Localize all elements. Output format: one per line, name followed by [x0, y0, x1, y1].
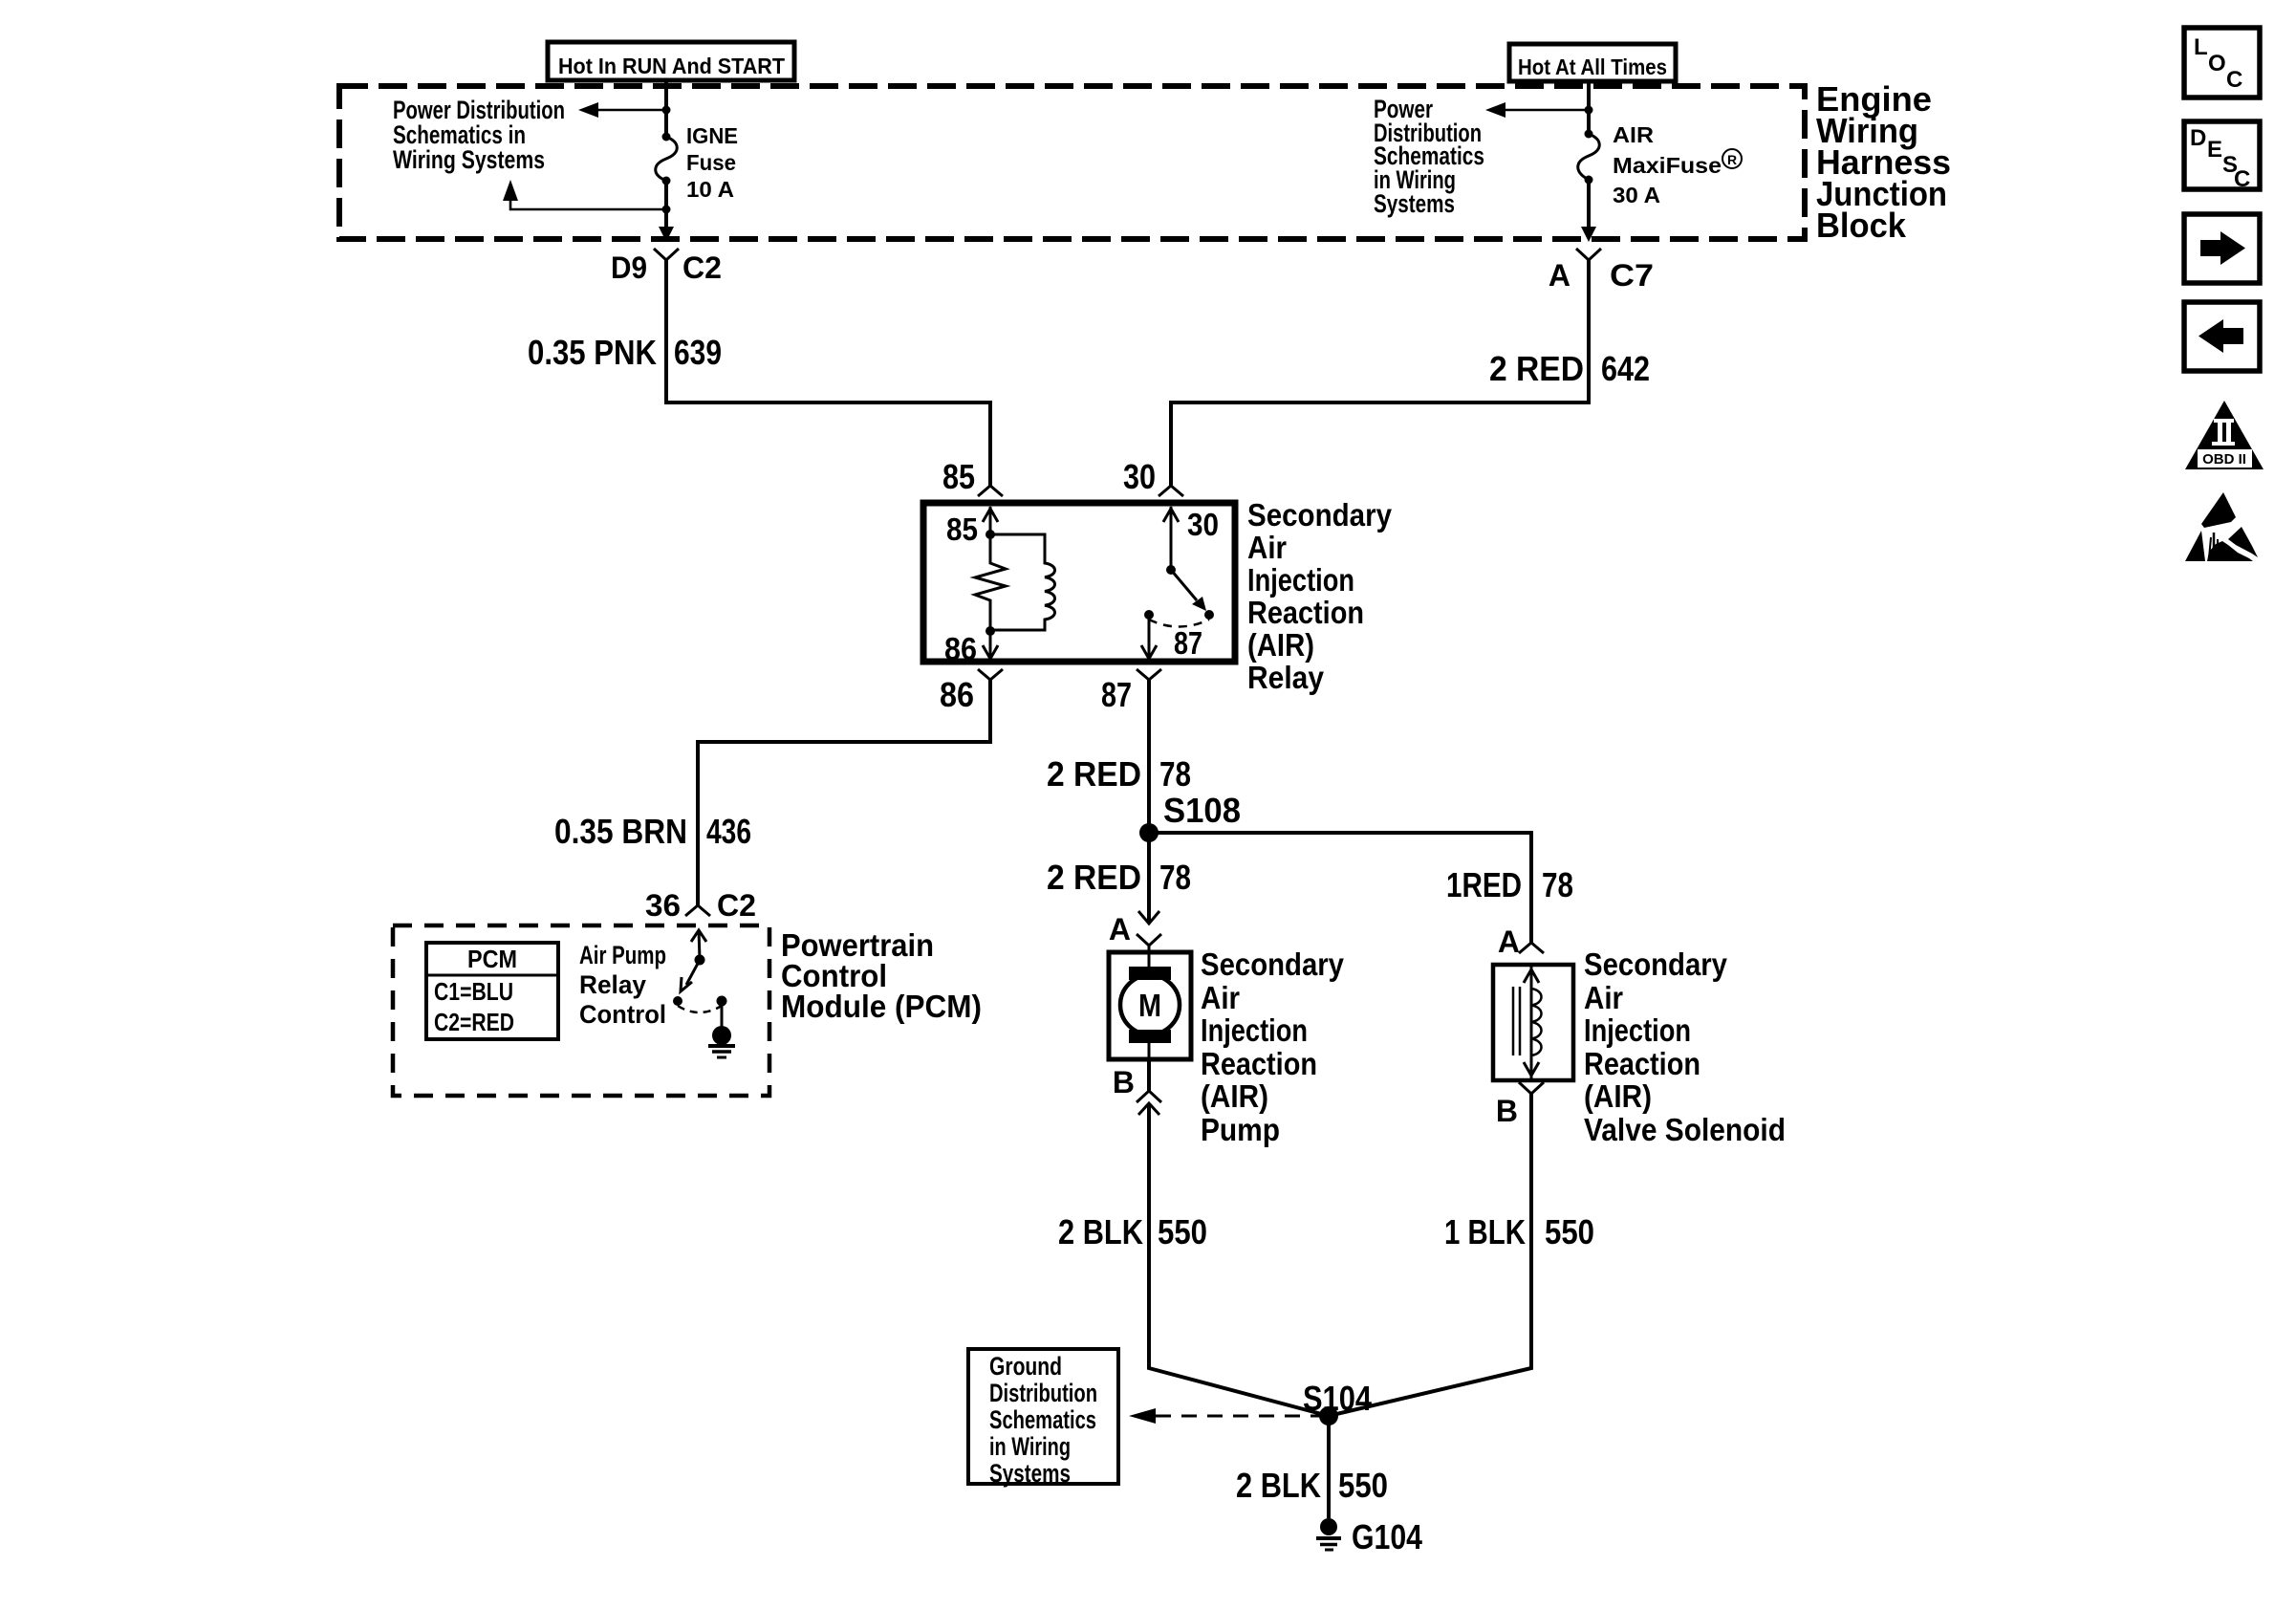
- wire 0.35 PNK 639 to relay pin 85: [666, 260, 990, 486]
- icon: DESC box: [2184, 121, 2260, 192]
- svg-text:30: 30: [1123, 457, 1156, 496]
- PCM dashed box: [393, 925, 769, 1096]
- svg-text:OBD II: OBD II: [2202, 451, 2246, 468]
- svg-text:78: 78: [1542, 865, 1573, 904]
- svg-text:Hot In RUN And START: Hot In RUN And START: [558, 54, 785, 78]
- wire: below fuse with tap: [664, 181, 668, 228]
- connector break A/C7: [1576, 249, 1601, 260]
- svg-text:Module (PCM): Module (PCM): [781, 989, 982, 1024]
- label: Air Pump Relay Control: [579, 941, 666, 1029]
- svg-text:A: A: [1498, 925, 1520, 959]
- svg-text:85: 85: [946, 511, 978, 547]
- label: Secondary Air Injection Reaction (AIR) Valve Solenoid: [1584, 946, 1786, 1147]
- relay coil: [990, 534, 1055, 630]
- PCM connector id box: [426, 943, 558, 1039]
- svg-text:C2: C2: [682, 250, 722, 285]
- wire 0.35 BRN 436 from pin 86 to PCM pin 36: [698, 680, 990, 905]
- svg-text:Air Pump: Air Pump: [579, 941, 666, 969]
- ground G104: [1316, 1517, 1422, 1556]
- svg-text:642: 642: [1601, 349, 1650, 388]
- svg-text:M: M: [1138, 988, 1161, 1023]
- svg-text:78: 78: [1159, 754, 1191, 794]
- wire 2 RED 78 from relay pin 87 to S108: [1147, 680, 1151, 924]
- svg-text:Secondary: Secondary: [1584, 946, 1728, 982]
- svg-text:30 A: 30 A: [1613, 183, 1660, 207]
- svg-text:A: A: [1549, 258, 1570, 293]
- svg-text:O: O: [2208, 51, 2226, 76]
- svg-text:0.35 PNK: 0.35 PNK: [528, 333, 657, 372]
- svg-text:85: 85: [942, 457, 975, 496]
- node: splice S108: [1139, 823, 1159, 842]
- svg-text:(AIR): (AIR): [1247, 627, 1314, 663]
- wire 2 BLK 550 from pump B to S104: [1149, 1103, 1329, 1416]
- svg-text:Systems: Systems: [1374, 189, 1455, 218]
- arrow: exit at D9: [659, 227, 674, 242]
- label box: Hot At All Times: [1509, 44, 1676, 81]
- svg-text:Air: Air: [1584, 980, 1623, 1015]
- ground distribution reference box: [968, 1349, 1118, 1488]
- svg-text:Secondary: Secondary: [1201, 946, 1345, 982]
- svg-text:2 BLK: 2 BLK: [1236, 1466, 1321, 1505]
- junction block dashed box: [339, 86, 1805, 239]
- svg-text:1 BLK: 1 BLK: [1444, 1212, 1526, 1251]
- icon: OBD II triangle: [2185, 401, 2264, 469]
- label: Secondary Air Injection Reaction (AIR) Relay: [1247, 497, 1393, 695]
- svg-text:D: D: [2190, 125, 2206, 151]
- wire: up arrow tap to Wiring Systems: [510, 199, 666, 209]
- relay resistor: [975, 534, 1006, 631]
- label: Powertrain Control Module (PCM): [781, 927, 982, 1024]
- fuse AIR MaxiFuse 30 A: [1578, 130, 1600, 185]
- ground inside PCM: [721, 1001, 724, 1027]
- svg-text:2 RED: 2 RED: [1047, 858, 1141, 897]
- svg-text:C: C: [2234, 166, 2250, 192]
- svg-text:2 BLK: 2 BLK: [1058, 1212, 1143, 1251]
- svg-text:Distribution: Distribution: [989, 1379, 1097, 1407]
- svg-text:86: 86: [940, 675, 974, 714]
- svg-text:436: 436: [706, 812, 751, 851]
- arrow: exit at A/C7: [1581, 227, 1596, 242]
- relay pin 30 internal arrow: [1170, 507, 1173, 570]
- svg-text:Ground: Ground: [989, 1352, 1062, 1381]
- svg-text:L: L: [2194, 34, 2208, 60]
- label: Power Distribution Schematics in Wiring Systems (left): [393, 96, 565, 174]
- svg-text:PCM: PCM: [467, 945, 517, 973]
- wire: from Hot At All Times to fuse: [1587, 81, 1591, 134]
- svg-text:Valve Solenoid: Valve Solenoid: [1584, 1112, 1786, 1147]
- svg-text:AIR: AIR: [1613, 122, 1654, 147]
- svg-text:MaxiFuse: MaxiFuse: [1613, 153, 1722, 178]
- svg-text:550: 550: [1545, 1212, 1594, 1251]
- icon: right arrow box: [2184, 214, 2260, 283]
- relay U: Secondary Air Injection Reaction (AIR) Relay box: [923, 503, 1235, 662]
- svg-text:30: 30: [1187, 507, 1219, 542]
- relay switch armature: [1166, 565, 1176, 575]
- node: junction dot right feed: [1585, 106, 1593, 115]
- svg-text:550: 550: [1338, 1466, 1388, 1505]
- svg-text:Air: Air: [1201, 980, 1240, 1015]
- svg-text:Pump: Pump: [1201, 1112, 1280, 1147]
- wire 2 BLK 550 from S104 to G104: [1327, 1416, 1331, 1518]
- svg-text:Control: Control: [579, 1000, 666, 1029]
- svg-text:Systems: Systems: [989, 1459, 1071, 1488]
- relay pin 85 internal arrow: [989, 507, 992, 534]
- connector break at relay pin 86: [978, 669, 1003, 680]
- svg-text:Air: Air: [1247, 530, 1287, 565]
- dashed arrow to ground distribution: [1156, 1415, 1329, 1418]
- svg-text:Reaction: Reaction: [1247, 595, 1364, 630]
- wire: arrow tap to Power Distribution (right): [1504, 109, 1589, 112]
- svg-text:E: E: [2207, 137, 2222, 163]
- svg-text:in Wiring: in Wiring: [989, 1432, 1071, 1461]
- svg-text:A: A: [1109, 912, 1131, 946]
- label: IGNE Fuse 10 A: [686, 123, 738, 202]
- wire: arrow tap to Power Distribution (left): [596, 109, 666, 112]
- icon: left arrow box: [2184, 302, 2260, 371]
- svg-text:87: 87: [1174, 625, 1202, 661]
- solenoid: Secondary Air Injection Reaction (AIR) Valve Solenoid: [1493, 965, 1573, 1080]
- wire below right fuse: [1587, 180, 1591, 228]
- svg-text:Secondary: Secondary: [1247, 497, 1393, 533]
- label box: Hot In RUN And START: [548, 42, 794, 80]
- connector break at relay pin 87: [1137, 669, 1161, 680]
- wire 1 BLK 550 from solenoid B to S104: [1329, 1094, 1531, 1416]
- svg-text:78: 78: [1159, 858, 1191, 897]
- svg-text:C1=BLU: C1=BLU: [434, 977, 513, 1006]
- svg-text:IGNE: IGNE: [686, 123, 738, 148]
- svg-text:C7: C7: [1610, 258, 1654, 293]
- svg-text:87: 87: [1101, 675, 1132, 714]
- svg-text:Injection: Injection: [1584, 1012, 1691, 1048]
- svg-text:2 RED: 2 RED: [1489, 349, 1584, 388]
- svg-text:B: B: [1496, 1094, 1518, 1128]
- relay pin 87 internal arrow: [1148, 615, 1151, 659]
- node: junction dot left feed: [662, 106, 671, 115]
- connector break at relay pin 85: [978, 486, 1003, 496]
- node: coil bottom: [986, 626, 995, 636]
- svg-text:(AIR): (AIR): [1201, 1078, 1268, 1114]
- svg-text:D9: D9: [611, 250, 647, 285]
- label: AIR MaxiFuse 30 A: [1613, 122, 1722, 207]
- svg-text:0.35 BRN: 0.35 BRN: [554, 812, 687, 851]
- icon: LOC box: [2184, 28, 2260, 98]
- svg-text:639: 639: [674, 333, 722, 372]
- svg-text:550: 550: [1158, 1212, 1207, 1251]
- connector break at PCM pin 36: [685, 905, 710, 916]
- svg-text:2 RED: 2 RED: [1047, 754, 1141, 794]
- svg-text:Relay: Relay: [1247, 660, 1325, 695]
- svg-text:1RED: 1RED: [1446, 865, 1522, 904]
- label: Engine Wiring Harness Junction Block: [1816, 79, 1951, 245]
- svg-text:B: B: [1113, 1065, 1135, 1099]
- svg-text:Reaction: Reaction: [1201, 1046, 1317, 1081]
- svg-text:Wiring Systems: Wiring Systems: [393, 145, 545, 174]
- svg-text:36: 36: [645, 888, 681, 923]
- relay contacts: [1144, 610, 1154, 620]
- wire 2 RED 642 to relay pin 30: [1171, 260, 1589, 486]
- svg-text:G104: G104: [1352, 1517, 1422, 1556]
- PCM switch (air pump relay control driver): [691, 930, 706, 942]
- svg-text:Injection: Injection: [1201, 1012, 1308, 1048]
- svg-text:(AIR): (AIR): [1584, 1078, 1652, 1114]
- node: splice S104: [1319, 1406, 1338, 1425]
- relay pin 86 internal arrow: [989, 631, 992, 659]
- svg-text:R: R: [1727, 152, 1737, 167]
- svg-text:86: 86: [944, 631, 977, 666]
- motor M: Secondary Air Injection Reaction (AIR) Pump: [1109, 952, 1191, 1059]
- svg-text:Fuse: Fuse: [686, 150, 736, 175]
- icon: ESD symbol: [2185, 492, 2258, 561]
- svg-text:Injection: Injection: [1247, 562, 1354, 598]
- svg-text:Hot At All Times: Hot At All Times: [1518, 54, 1667, 79]
- svg-text:S104: S104: [1303, 1379, 1372, 1418]
- svg-text:Schematics: Schematics: [989, 1405, 1096, 1434]
- svg-text:Relay: Relay: [579, 970, 646, 999]
- svg-text:C: C: [2226, 67, 2242, 93]
- connector break at relay pin 30: [1159, 486, 1183, 496]
- label: Secondary Air Injection Reaction (AIR) Pump: [1201, 946, 1345, 1147]
- node: coil top: [986, 530, 995, 539]
- svg-text:C2=RED: C2=RED: [434, 1008, 514, 1036]
- wire: S108 branch to solenoid: [1149, 833, 1531, 943]
- svg-text:10 A: 10 A: [686, 177, 734, 202]
- svg-text:S108: S108: [1163, 791, 1241, 830]
- connector break D9/C2: [654, 249, 679, 260]
- svg-text:Reaction: Reaction: [1584, 1046, 1700, 1081]
- wire: from Hot In RUN box to fuse: [664, 80, 668, 137]
- fuse IGNE Fuse 10 A: [656, 133, 678, 185]
- label: Power Distribution Schematics in Wiring Systems (right): [1374, 95, 1484, 218]
- svg-text:C2: C2: [717, 888, 756, 923]
- svg-text:Block: Block: [1816, 206, 1907, 245]
